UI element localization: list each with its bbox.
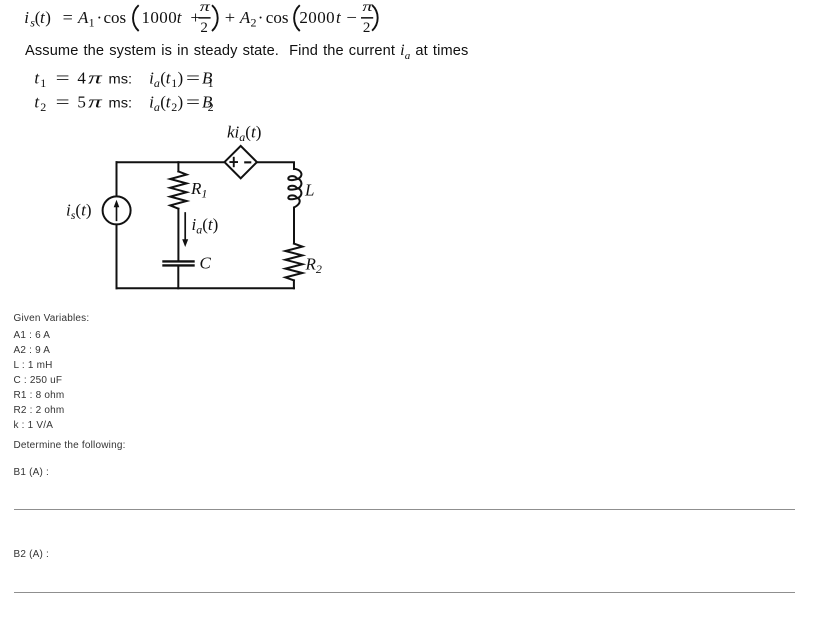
equation line 1 bbox=[0, 0, 400, 40]
svg-text:ms:: ms: bbox=[109, 71, 133, 87]
wire left upper bbox=[116, 162, 118, 197]
svg-text:2000: 2000 bbox=[299, 8, 335, 27]
svg-text:R1: R1 bbox=[190, 179, 207, 201]
svg-text:=: = bbox=[186, 69, 200, 88]
svg-text:t: t bbox=[177, 8, 183, 27]
svg-text:=: = bbox=[63, 8, 73, 27]
svg-text:=: = bbox=[56, 93, 70, 112]
wire between coil and R2 bbox=[293, 208, 295, 244]
wire R1 branch top bbox=[177, 162, 179, 171]
svg-text:·: · bbox=[97, 8, 103, 27]
svg-text:π: π bbox=[200, 0, 211, 15]
svg-text:1: 1 bbox=[89, 15, 95, 29]
minus sign in diamond bbox=[244, 161, 251, 163]
wire R2 to bottom bbox=[293, 280, 295, 288]
svg-text:kia(t): kia(t) bbox=[227, 123, 261, 145]
svg-text:L: L bbox=[304, 181, 314, 200]
svg-text:): ) bbox=[178, 69, 184, 88]
wire top left segment bbox=[117, 161, 224, 163]
svg-text:=: = bbox=[186, 93, 200, 112]
svg-text:): ) bbox=[45, 8, 51, 27]
dependent source diamond bbox=[225, 146, 257, 178]
plus sign in diamond bbox=[229, 157, 238, 167]
svg-text:5: 5 bbox=[77, 93, 86, 112]
svg-text:2: 2 bbox=[208, 100, 214, 114]
line 2: Assume ... bbox=[25, 43, 468, 62]
svg-text:2: 2 bbox=[200, 20, 208, 36]
wire top right segment bbox=[258, 162, 294, 169]
current source arrowhead bbox=[114, 200, 120, 208]
rule 1 bbox=[14, 509, 795, 510]
svg-text:π: π bbox=[88, 69, 102, 88]
capacitor C bbox=[164, 261, 194, 265]
current source IS circle bbox=[103, 196, 131, 224]
svg-text:ms:: ms: bbox=[109, 95, 133, 111]
ia arrowhead bbox=[182, 239, 188, 247]
B2 label bbox=[14, 547, 50, 562]
line t1 bbox=[0, 64, 260, 90]
svg-text:π: π bbox=[88, 93, 102, 112]
svg-text:a: a bbox=[154, 100, 160, 114]
svg-text:1000: 1000 bbox=[142, 8, 178, 27]
svg-text:): ) bbox=[178, 93, 184, 112]
svg-text:A: A bbox=[77, 8, 89, 27]
svg-text:4: 4 bbox=[77, 69, 86, 88]
svg-text:=: = bbox=[56, 69, 70, 88]
svg-text:2: 2 bbox=[40, 100, 46, 114]
svg-text:ia(t): ia(t) bbox=[192, 215, 219, 237]
resistor R1 bbox=[170, 171, 186, 208]
svg-text:π: π bbox=[362, 0, 373, 15]
svg-text:t: t bbox=[336, 8, 342, 27]
svg-text:R2: R2 bbox=[305, 255, 322, 277]
wire capacitor to bottom bbox=[177, 266, 179, 288]
wire R1 to capacitor bbox=[177, 209, 179, 261]
resistor R2 bbox=[285, 244, 302, 281]
svg-text:+: + bbox=[225, 8, 235, 27]
current source arrow shaft bbox=[116, 207, 118, 221]
svg-text:cos: cos bbox=[104, 8, 127, 27]
svg-text:2: 2 bbox=[171, 100, 177, 114]
B1 label bbox=[14, 465, 50, 480]
svg-text:is(t): is(t) bbox=[66, 201, 91, 223]
line t2 bbox=[0, 88, 260, 114]
svg-text:2: 2 bbox=[363, 20, 371, 36]
svg-text:i: i bbox=[24, 8, 29, 27]
wire left lower bbox=[116, 224, 118, 288]
svg-text:C: C bbox=[200, 254, 212, 273]
svg-text:A: A bbox=[239, 8, 251, 27]
svg-text:−: − bbox=[346, 8, 357, 27]
rule 2 bbox=[14, 592, 795, 593]
wire bottom bbox=[117, 287, 295, 289]
determine line bbox=[14, 438, 126, 453]
svg-text:cos: cos bbox=[266, 8, 289, 27]
inductor L coil bbox=[288, 169, 301, 208]
svg-text:2: 2 bbox=[251, 15, 257, 29]
given variables block bbox=[14, 311, 90, 326]
current arrow ia shaft bbox=[184, 213, 186, 240]
circuit schematic bbox=[50, 115, 350, 305]
svg-text:·: · bbox=[258, 8, 264, 27]
